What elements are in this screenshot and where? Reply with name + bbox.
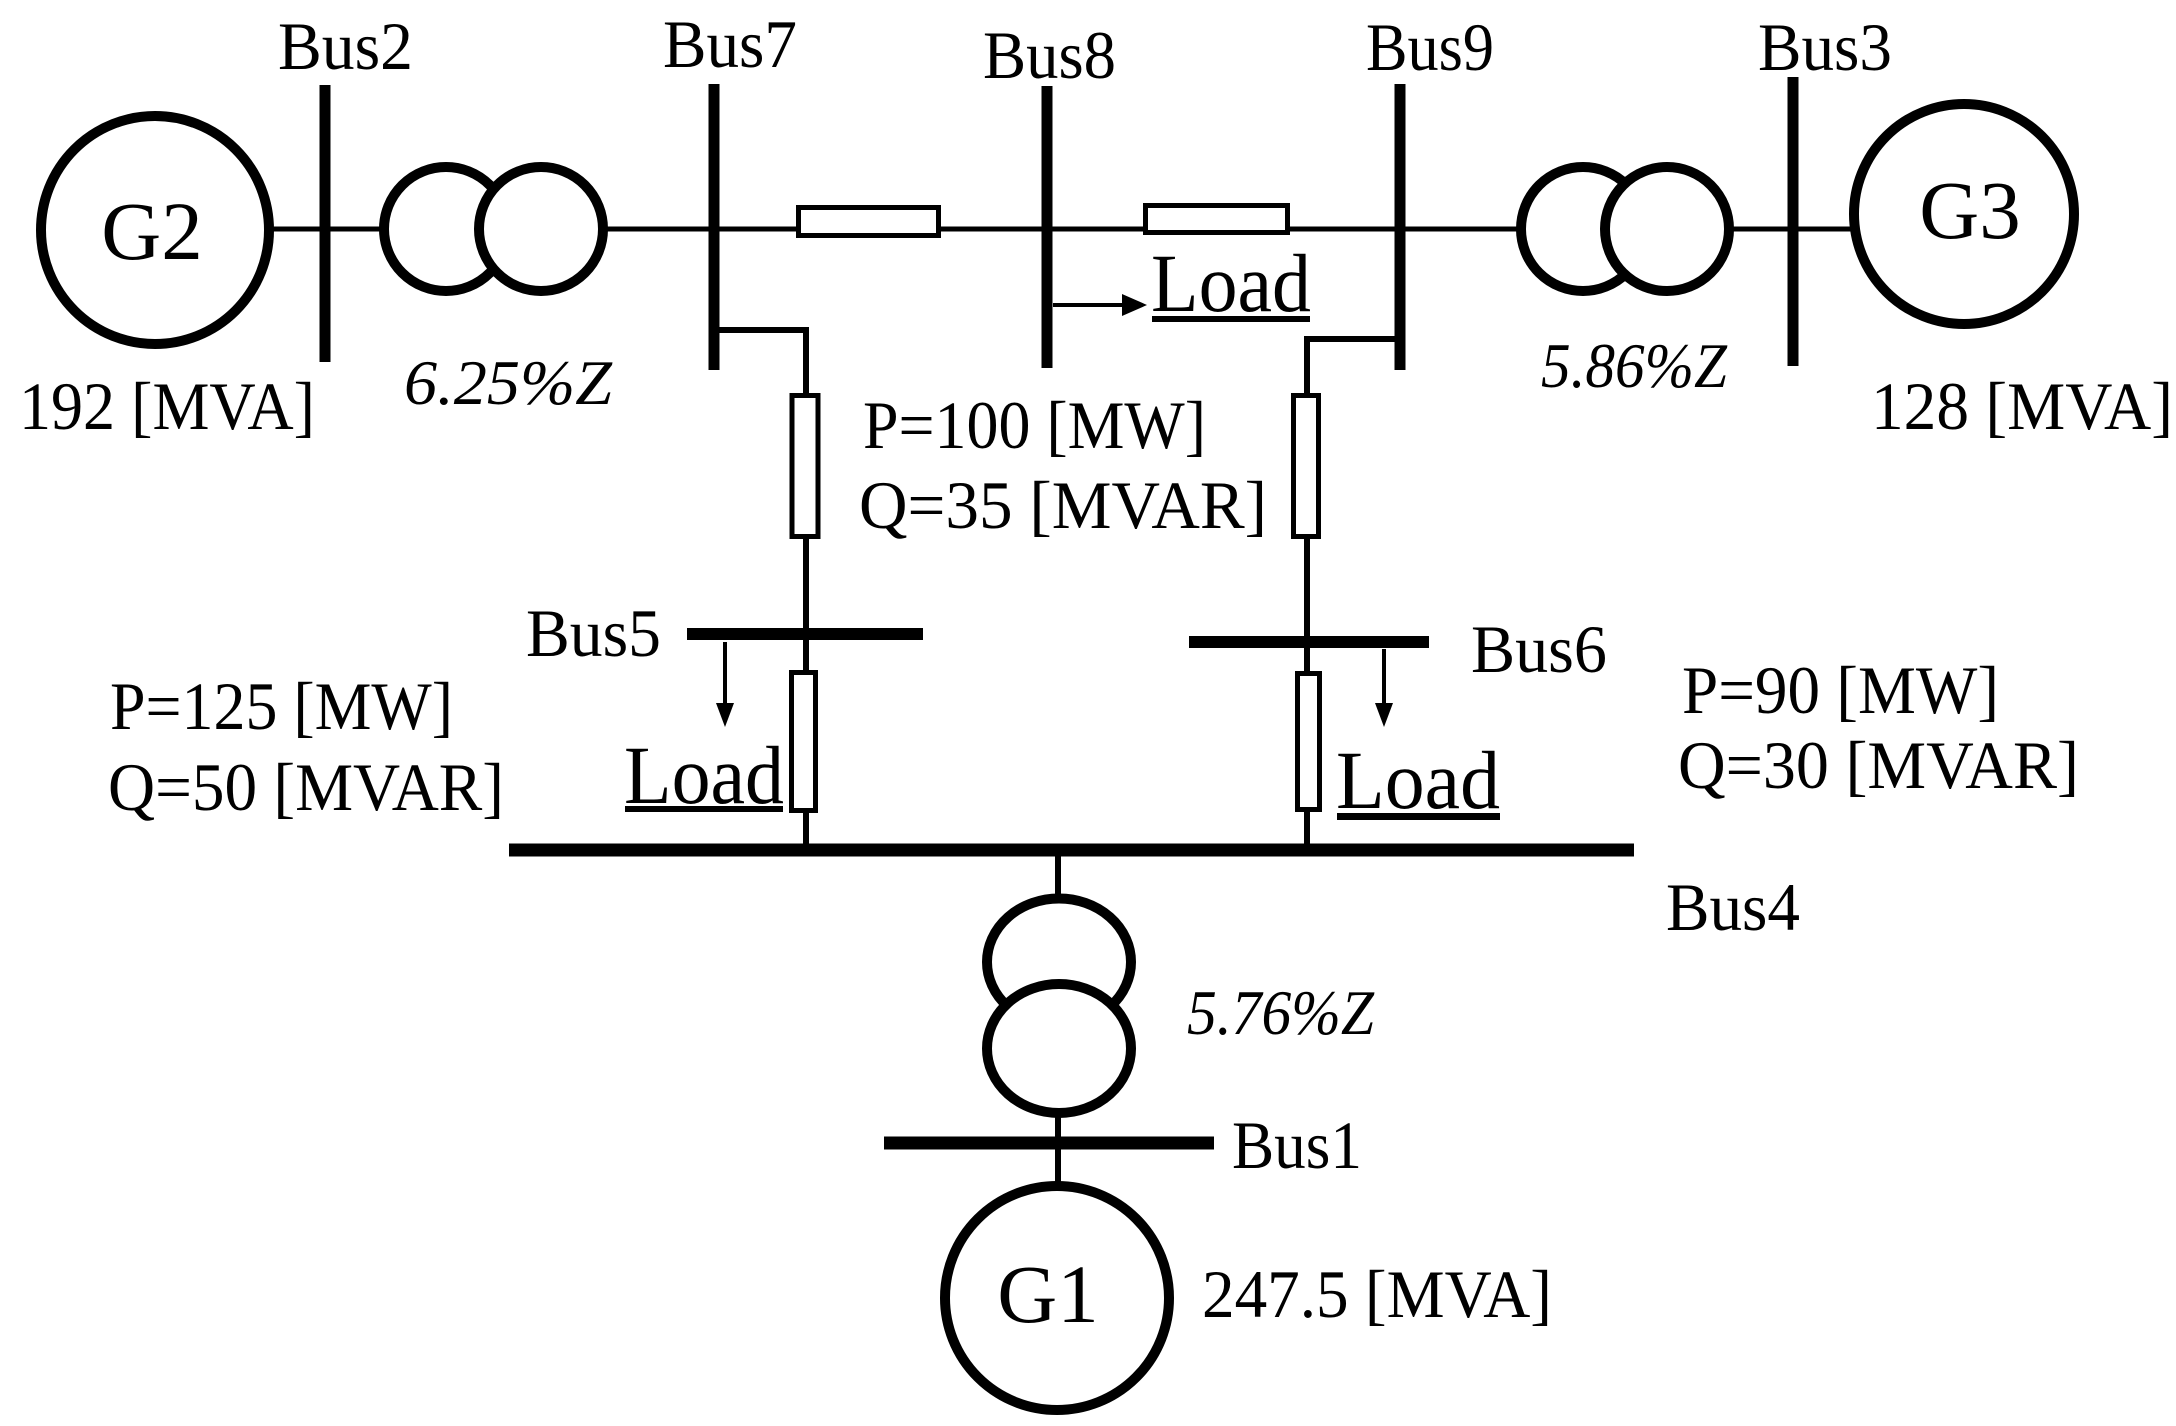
svg-text:G3: G3 bbox=[1919, 164, 2020, 256]
svg-text:Bus7: Bus7 bbox=[663, 6, 797, 82]
svg-text:192 [MVA]: 192 [MVA] bbox=[19, 368, 315, 444]
svg-text:247.5 [MVA]: 247.5 [MVA] bbox=[1202, 1256, 1552, 1332]
svg-text:Bus9: Bus9 bbox=[1366, 9, 1494, 85]
svg-text:5.86%Z: 5.86%Z bbox=[1541, 331, 1728, 401]
svg-text:P=100 [MW]: P=100 [MW] bbox=[863, 387, 1206, 463]
svg-text:128 [MVA]: 128 [MVA] bbox=[1871, 368, 2173, 444]
svg-text:G2: G2 bbox=[101, 185, 202, 277]
svg-text:Load: Load bbox=[1151, 237, 1311, 329]
svg-text:6.25%Z: 6.25%Z bbox=[404, 348, 613, 418]
svg-text:Bus2: Bus2 bbox=[278, 8, 413, 84]
svg-text:Bus6: Bus6 bbox=[1471, 611, 1607, 687]
svg-text:Bus5: Bus5 bbox=[526, 595, 661, 671]
svg-text:Bus8: Bus8 bbox=[983, 17, 1116, 93]
svg-text:Q=35 [MVAR]: Q=35 [MVAR] bbox=[859, 467, 1267, 543]
svg-text:5.76%Z: 5.76%Z bbox=[1187, 978, 1375, 1048]
svg-text:G1: G1 bbox=[997, 1248, 1098, 1340]
svg-text:P=90 [MW]: P=90 [MW] bbox=[1682, 652, 1999, 728]
svg-text:Bus1: Bus1 bbox=[1232, 1107, 1362, 1183]
svg-text:Bus4: Bus4 bbox=[1666, 869, 1800, 945]
svg-text:Q=30 [MVAR]: Q=30 [MVAR] bbox=[1678, 727, 2079, 803]
svg-text:Load: Load bbox=[1336, 734, 1500, 826]
svg-text:P=125 [MW]: P=125 [MW] bbox=[110, 668, 453, 744]
svg-text:Q=50 [MVAR]: Q=50 [MVAR] bbox=[108, 749, 504, 825]
svg-text:Bus3: Bus3 bbox=[1758, 9, 1892, 85]
